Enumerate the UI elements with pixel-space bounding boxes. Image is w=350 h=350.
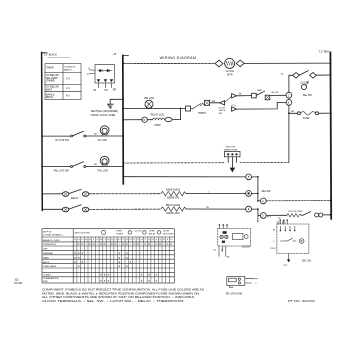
svg-text:EYE ON TEMP: EYE ON TEMP	[288, 211, 303, 213]
svg-text:ALL OTHER COMPONENTS ARE SHOWN: ALL OTHER COMPONENTS ARE SHOWN IN "OFF" …	[42, 296, 195, 299]
resistor BROIL ELEMENT	[161, 207, 186, 212]
neutral bus	[122, 55, 125, 184]
selector switch detail box	[277, 219, 309, 262]
svg-text:1-2: 1-2	[148, 239, 150, 241]
clock terminal detail box	[218, 224, 251, 256]
table column codes	[74, 239, 173, 241]
connector arrow A2	[232, 107, 237, 111]
svg-text:1-2: 1-2	[159, 239, 161, 241]
wire dashed drop to sel sw detail	[257, 216, 259, 223]
thermostat switch THMST	[191, 103, 205, 108]
table row labels	[43, 239, 60, 283]
L2 bus	[329, 52, 332, 219]
svg-text:CONTACTS MADE X: CONTACTS MADE X	[43, 234, 63, 237]
svg-text:4-0: 4-0	[89, 239, 91, 241]
svg-text:1-2: 1-2	[137, 239, 139, 241]
node dots left bus	[41, 135, 43, 137]
terminal box B4	[265, 95, 270, 100]
svg-text:(TIMER): (TIMER)	[46, 80, 55, 83]
relay coil branch	[123, 119, 141, 121]
node dots vertical	[257, 176, 259, 178]
svg-text:MTR: MTR	[227, 74, 233, 77]
svg-text:BAKE: BAKE	[43, 256, 49, 259]
svg-text:TIMER: TIMER	[46, 67, 54, 70]
terminal box B3	[252, 93, 257, 98]
switch interlock	[256, 91, 264, 95]
svg-text:322: 322	[15, 279, 20, 282]
svg-text:CONTACTS: CONTACTS	[64, 66, 76, 69]
svg-text:THERMOSTAT: THERMOSTAT	[223, 148, 238, 151]
svg-text:C: C	[288, 94, 290, 97]
svg-text:3-8: 3-8	[100, 239, 102, 241]
svg-text:CLEAN: CLEAN	[43, 273, 51, 276]
relay coil K1	[142, 117, 147, 122]
timer TM1	[89, 65, 115, 88]
switch OV LITE SW	[42, 135, 71, 137]
svg-text:1-2: 1-2	[126, 239, 128, 241]
ground	[107, 104, 113, 108]
svg-text:"L2" RED: "L2" RED	[318, 51, 329, 54]
svg-text:DOOR: DOOR	[163, 231, 170, 233]
switch PNL LITE SW	[42, 166, 70, 168]
wire latch row	[237, 102, 278, 109]
svg-text:CLOCK: CLOCK	[242, 246, 251, 249]
svg-text:LATCH: LATCH	[219, 109, 226, 112]
svg-text:3-4: 3-4	[152, 239, 154, 241]
svg-text:THMST: THMST	[116, 233, 124, 235]
lamp PNL LITE	[100, 156, 109, 165]
svg-text:BAKT: BAKT	[257, 89, 263, 92]
resistor BAKE ELEMENT	[161, 191, 186, 196]
connector arrow DL	[232, 94, 237, 98]
svg-text:M500: M500	[155, 124, 162, 127]
fuse F1	[288, 112, 290, 114]
svg-text:OV LITE SW: OV LITE SW	[55, 139, 69, 142]
wire ind-lite row	[123, 108, 186, 110]
svg-text:IND LITE: IND LITE	[144, 97, 154, 100]
svg-text:2-3: 2-3	[163, 239, 165, 241]
svg-text:3400W 240V: 3400W 240V	[166, 212, 180, 215]
svg-text:2-3: 2-3	[140, 239, 142, 241]
clock motor M1	[225, 58, 235, 68]
connector diamond D2	[236, 60, 244, 67]
svg-text:~ W: ~ W	[112, 53, 117, 56]
selector contact S5	[260, 213, 266, 219]
selector contact S2	[246, 191, 252, 197]
wire eye-on row	[266, 214, 287, 216]
svg-text:RELAY: RELAY	[71, 197, 79, 200]
lamp OV LITE	[100, 126, 109, 135]
connector diamond D3	[293, 73, 300, 79]
svg-text:SELECTOR SW: SELECTOR SW	[75, 232, 90, 234]
svg-text:1-2: 1-2	[170, 239, 172, 241]
relay contacts K1-A	[42, 193, 62, 195]
svg-text:SW: SW	[219, 113, 222, 115]
svg-text:D: D	[262, 215, 264, 218]
selector contact B	[286, 100, 292, 106]
svg-text:PREHEAT: PREHEAT	[43, 252, 54, 255]
wire to connector	[210, 102, 220, 104]
wire to L2	[266, 200, 331, 202]
svg-text:OV LITE: OV LITE	[98, 139, 108, 142]
svg-text:BROIL ELEM: BROIL ELEM	[166, 204, 180, 207]
selector contact S4	[246, 206, 252, 212]
svg-text:PNL LITE SW: PNL LITE SW	[54, 170, 70, 173]
connector diamond D1	[215, 60, 223, 67]
wire row 163	[123, 162, 224, 164]
svg-text:OVEN: OVEN	[116, 231, 122, 233]
svg-text:550F: 550F	[43, 281, 49, 283]
svg-text:NOTED. (RED, BLACK & WHITE).: NOTED. (RED, BLACK & WHITE). ● INDICATES…	[42, 292, 200, 295]
relay contacts K2-A	[42, 208, 62, 210]
svg-text:3-8: 3-8	[107, 239, 109, 241]
svg-text:FUSE: FUSE	[303, 117, 310, 120]
switch eye	[301, 212, 310, 216]
svg-text:SHUTOFF: SHUTOFF	[226, 147, 237, 149]
door latch switch detail	[227, 277, 255, 288]
svg-text:SEL SW: SEL SW	[303, 94, 313, 97]
svg-text:DR LATCH SW: DR LATCH SW	[226, 293, 243, 296]
svg-text:PT NO. 320701: PT NO. 320701	[288, 300, 316, 303]
svg-text:THMST: THMST	[198, 112, 207, 115]
svg-text:3-0: 3-0	[85, 239, 87, 241]
selector sw symbol	[102, 230, 106, 234]
svg-text:TM: TM	[104, 89, 107, 92]
svg-text:3-4: 3-4	[118, 239, 120, 241]
svg-text:SEL SW: SEL SW	[302, 259, 312, 262]
notes text	[42, 288, 205, 303]
svg-text:BP: BP	[113, 89, 117, 92]
svg-text:CLEAR ABOVE: CLEAR ABOVE	[43, 277, 59, 280]
svg-text:SEL SW: SEL SW	[262, 190, 272, 193]
wire neutral to ground	[110, 99, 123, 104]
selector contact S3	[258, 193, 261, 201]
wire top row left	[123, 63, 215, 65]
wire row 176.6	[123, 176, 245, 178]
wire bake-protect row	[237, 95, 252, 97]
svg-text:TIMED BAKE: TIMED BAKE	[43, 265, 57, 268]
wire dashed under L1 label	[48, 57, 70, 59]
svg-text:SW POS: SW POS	[43, 231, 52, 233]
svg-text:3-4: 3-4	[129, 239, 131, 241]
svg-text:RELAY COIL: RELAY COIL	[151, 113, 166, 116]
svg-text:AREA OF OVEN: AREA OF OVEN	[43, 239, 60, 242]
selector contact S1	[246, 174, 252, 180]
timer contact table	[45, 64, 81, 100]
table X marks	[74, 253, 157, 282]
svg-text:WIRING DIAGRAM: WIRING DIAGRAM	[160, 56, 197, 60]
node dots L2 bus	[330, 62, 332, 64]
svg-text:OPERATION: OPERATION	[43, 243, 56, 246]
svg-text:NEUTRAL (GROUNDED): NEUTRAL (GROUNDED)	[91, 110, 118, 113]
wire top row right	[244, 62, 330, 64]
resistor R-EYE	[287, 214, 301, 217]
svg-text:PNL LITE: PNL LITE	[98, 170, 109, 173]
svg-text:RELAY: RELAY	[149, 232, 156, 235]
svg-text:BROIL: BROIL	[43, 262, 50, 264]
svg-text:COMPONENT SYMBOLS DO NOT REFLE: COMPONENT SYMBOLS DO NOT REFLECT TRUE CO…	[42, 288, 205, 291]
wire bake row	[89, 193, 161, 195]
ground thermostat	[230, 168, 234, 172]
svg-text:BAKT: BAKT	[46, 88, 53, 91]
clock trip symbol	[301, 84, 306, 89]
svg-text:NO-381: NO-381	[14, 282, 23, 285]
node J1	[180, 108, 182, 110]
node dots neutral bus	[122, 63, 124, 65]
svg-text:1-2: 1-2	[103, 239, 105, 241]
wire right vertical net	[288, 75, 290, 162]
svg-text:CHECK LOCAL CODE: CHECK LOCAL CODE	[91, 114, 116, 117]
svg-text:BAKE ELEM: BAKE ELEM	[166, 189, 180, 192]
svg-text:1-2: 1-2	[74, 239, 76, 241]
connector P1	[315, 213, 319, 217]
svg-text:MADE IT: MADE IT	[64, 68, 73, 71]
svg-text:OFF: OFF	[43, 249, 48, 251]
svg-text:2800W 240: 2800W 240	[167, 197, 180, 200]
svg-text:CLOCK TERMINALS. ○ SEL. SW.,: CLOCK TERMINALS. ○ SEL. SW., ○ LATCH SW.…	[42, 300, 185, 303]
connector diamond D4	[310, 73, 317, 79]
terminal box B1	[186, 106, 191, 111]
svg-text:1-2: 1-2	[96, 239, 98, 241]
svg-text:CLOCK: CLOCK	[135, 231, 143, 233]
connector arrow A1	[220, 101, 225, 105]
svg-text:BROIL: BROIL	[46, 96, 54, 99]
svg-text:"L1" BLACK: "L1" BLACK	[44, 54, 58, 57]
svg-text:1-2: 1-2	[81, 239, 83, 241]
svg-text:W: W	[87, 74, 89, 76]
selector contact C	[286, 92, 292, 98]
svg-text:LATCH SW: LATCH SW	[163, 232, 173, 235]
svg-text:OVEN: OVEN	[149, 231, 155, 233]
lamp IND LITE	[145, 100, 153, 108]
selector table	[42, 229, 174, 283]
svg-text:1-3: 1-3	[78, 239, 80, 241]
svg-text:PR-R: PR-R	[270, 248, 276, 250]
svg-text:INL SW: INL SW	[271, 92, 278, 94]
svg-text:1-2: 1-2	[115, 239, 117, 241]
svg-text:TOP: TOP	[283, 265, 288, 267]
wire broil row	[89, 208, 161, 210]
svg-text:CLOCK: CLOCK	[225, 70, 234, 73]
L1 bus	[41, 52, 44, 210]
terminal box B2	[205, 100, 210, 105]
